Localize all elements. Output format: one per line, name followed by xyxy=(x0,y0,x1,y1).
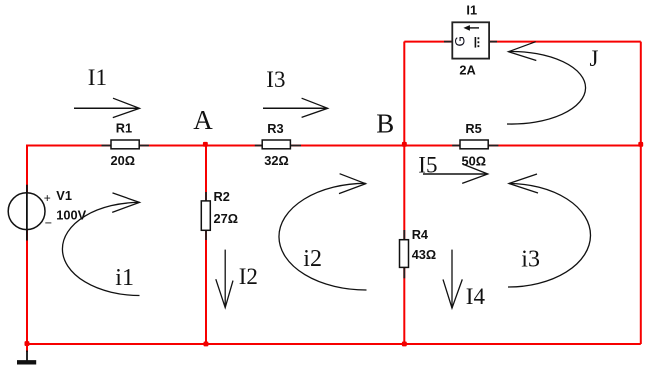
label R5 xyxy=(465,121,481,136)
svg-text:R5: R5 xyxy=(465,121,481,136)
V1 plus sign xyxy=(44,191,51,205)
junction dot node B xyxy=(402,142,407,147)
svg-text:B: B xyxy=(376,109,394,139)
voltage source V1 xyxy=(8,185,45,241)
arrow current I5 xyxy=(423,164,488,183)
label current I1 xyxy=(88,65,107,90)
svg-text:I5: I5 xyxy=(418,152,437,177)
wire: top horizontal branch with current source I1 xyxy=(404,41,641,43)
label mesh J xyxy=(590,46,599,71)
svg-text:R1: R1 xyxy=(116,120,132,135)
label I1 (source) xyxy=(466,3,477,18)
svg-text:27Ω: 27Ω xyxy=(214,211,239,226)
value 100V xyxy=(56,207,86,222)
V1 minus sign xyxy=(45,216,52,230)
svg-text:J: J xyxy=(590,46,599,71)
wire: left vertical branch with V1 xyxy=(26,145,28,345)
label current I5 xyxy=(418,152,437,177)
wire: right vertical branch xyxy=(640,42,642,344)
label R1 xyxy=(116,120,132,135)
value 2A xyxy=(459,63,475,78)
svg-text:I4: I4 xyxy=(466,284,486,309)
wire: node B vertical branch with R4 xyxy=(403,42,405,345)
label R2 xyxy=(214,189,230,204)
label R3 xyxy=(267,121,283,136)
resistor R2 xyxy=(201,192,210,240)
resistor R1 xyxy=(102,140,149,149)
arrow current I4 xyxy=(443,250,462,309)
junction dot bottom node B xyxy=(402,342,407,347)
arrow current I1 xyxy=(74,98,140,117)
svg-text:G: G xyxy=(453,36,468,47)
svg-text:+: + xyxy=(44,191,51,205)
svg-text:−: − xyxy=(45,216,52,230)
svg-text:43Ω: 43Ω xyxy=(412,247,437,262)
svg-text:A: A xyxy=(193,105,213,135)
value 32Ω xyxy=(264,153,289,168)
svg-text:50Ω: 50Ω xyxy=(462,153,487,168)
junction dot bottom left xyxy=(25,341,30,346)
resistor R3 xyxy=(255,140,301,149)
svg-text:i3: i3 xyxy=(521,247,540,273)
wire: node A vertical branch with R2 xyxy=(205,146,207,345)
svg-text:I1: I1 xyxy=(88,65,107,90)
node B label xyxy=(376,109,394,139)
label current I3 xyxy=(266,67,285,92)
junction dot right middle xyxy=(638,142,643,147)
resistor R5 xyxy=(452,140,498,149)
svg-text:I3: I3 xyxy=(266,67,285,92)
value 50Ω xyxy=(462,153,487,168)
value 20Ω xyxy=(111,153,136,168)
arrow current I2 xyxy=(216,250,233,308)
svg-text:V1: V1 xyxy=(56,188,72,203)
resistor R4 xyxy=(400,230,409,278)
svg-text:I2: I2 xyxy=(239,264,258,289)
svg-text:20Ω: 20Ω xyxy=(111,153,136,168)
svg-text:i2: i2 xyxy=(303,246,322,272)
label current I2 xyxy=(239,264,258,289)
mesh arrow i2 xyxy=(279,174,367,290)
mesh arrow i1 xyxy=(62,193,139,296)
svg-text:100V: 100V xyxy=(56,207,86,222)
label mesh i2 xyxy=(303,246,322,272)
mesh arrow i3 xyxy=(508,174,591,287)
svg-text:2A: 2A xyxy=(459,63,475,78)
label mesh i3 xyxy=(521,247,540,273)
label mesh i1 xyxy=(115,265,134,291)
label V1 xyxy=(56,188,72,203)
label R4 xyxy=(412,227,429,242)
wire: bottom horizontal bus xyxy=(26,343,641,345)
ground xyxy=(17,344,36,362)
svg-text:R3: R3 xyxy=(267,121,283,136)
label current I4 xyxy=(466,284,486,309)
wire: middle horizontal bus from left branch to right branch xyxy=(27,145,641,147)
junction dot bottom node A xyxy=(204,342,209,347)
svg-text:R2: R2 xyxy=(214,189,230,204)
current source I1 (box with arrow) xyxy=(444,22,497,58)
node A label xyxy=(193,105,213,135)
value 27Ω xyxy=(214,211,239,226)
arrow current I3 xyxy=(263,98,328,117)
svg-text:i1: i1 xyxy=(115,265,134,291)
svg-text:32Ω: 32Ω xyxy=(264,153,289,168)
svg-text:R4: R4 xyxy=(412,227,429,242)
value 43Ω xyxy=(412,247,437,262)
svg-text:I1: I1 xyxy=(466,3,477,18)
junction dot node A xyxy=(203,142,208,147)
mesh arrow J xyxy=(507,42,586,124)
